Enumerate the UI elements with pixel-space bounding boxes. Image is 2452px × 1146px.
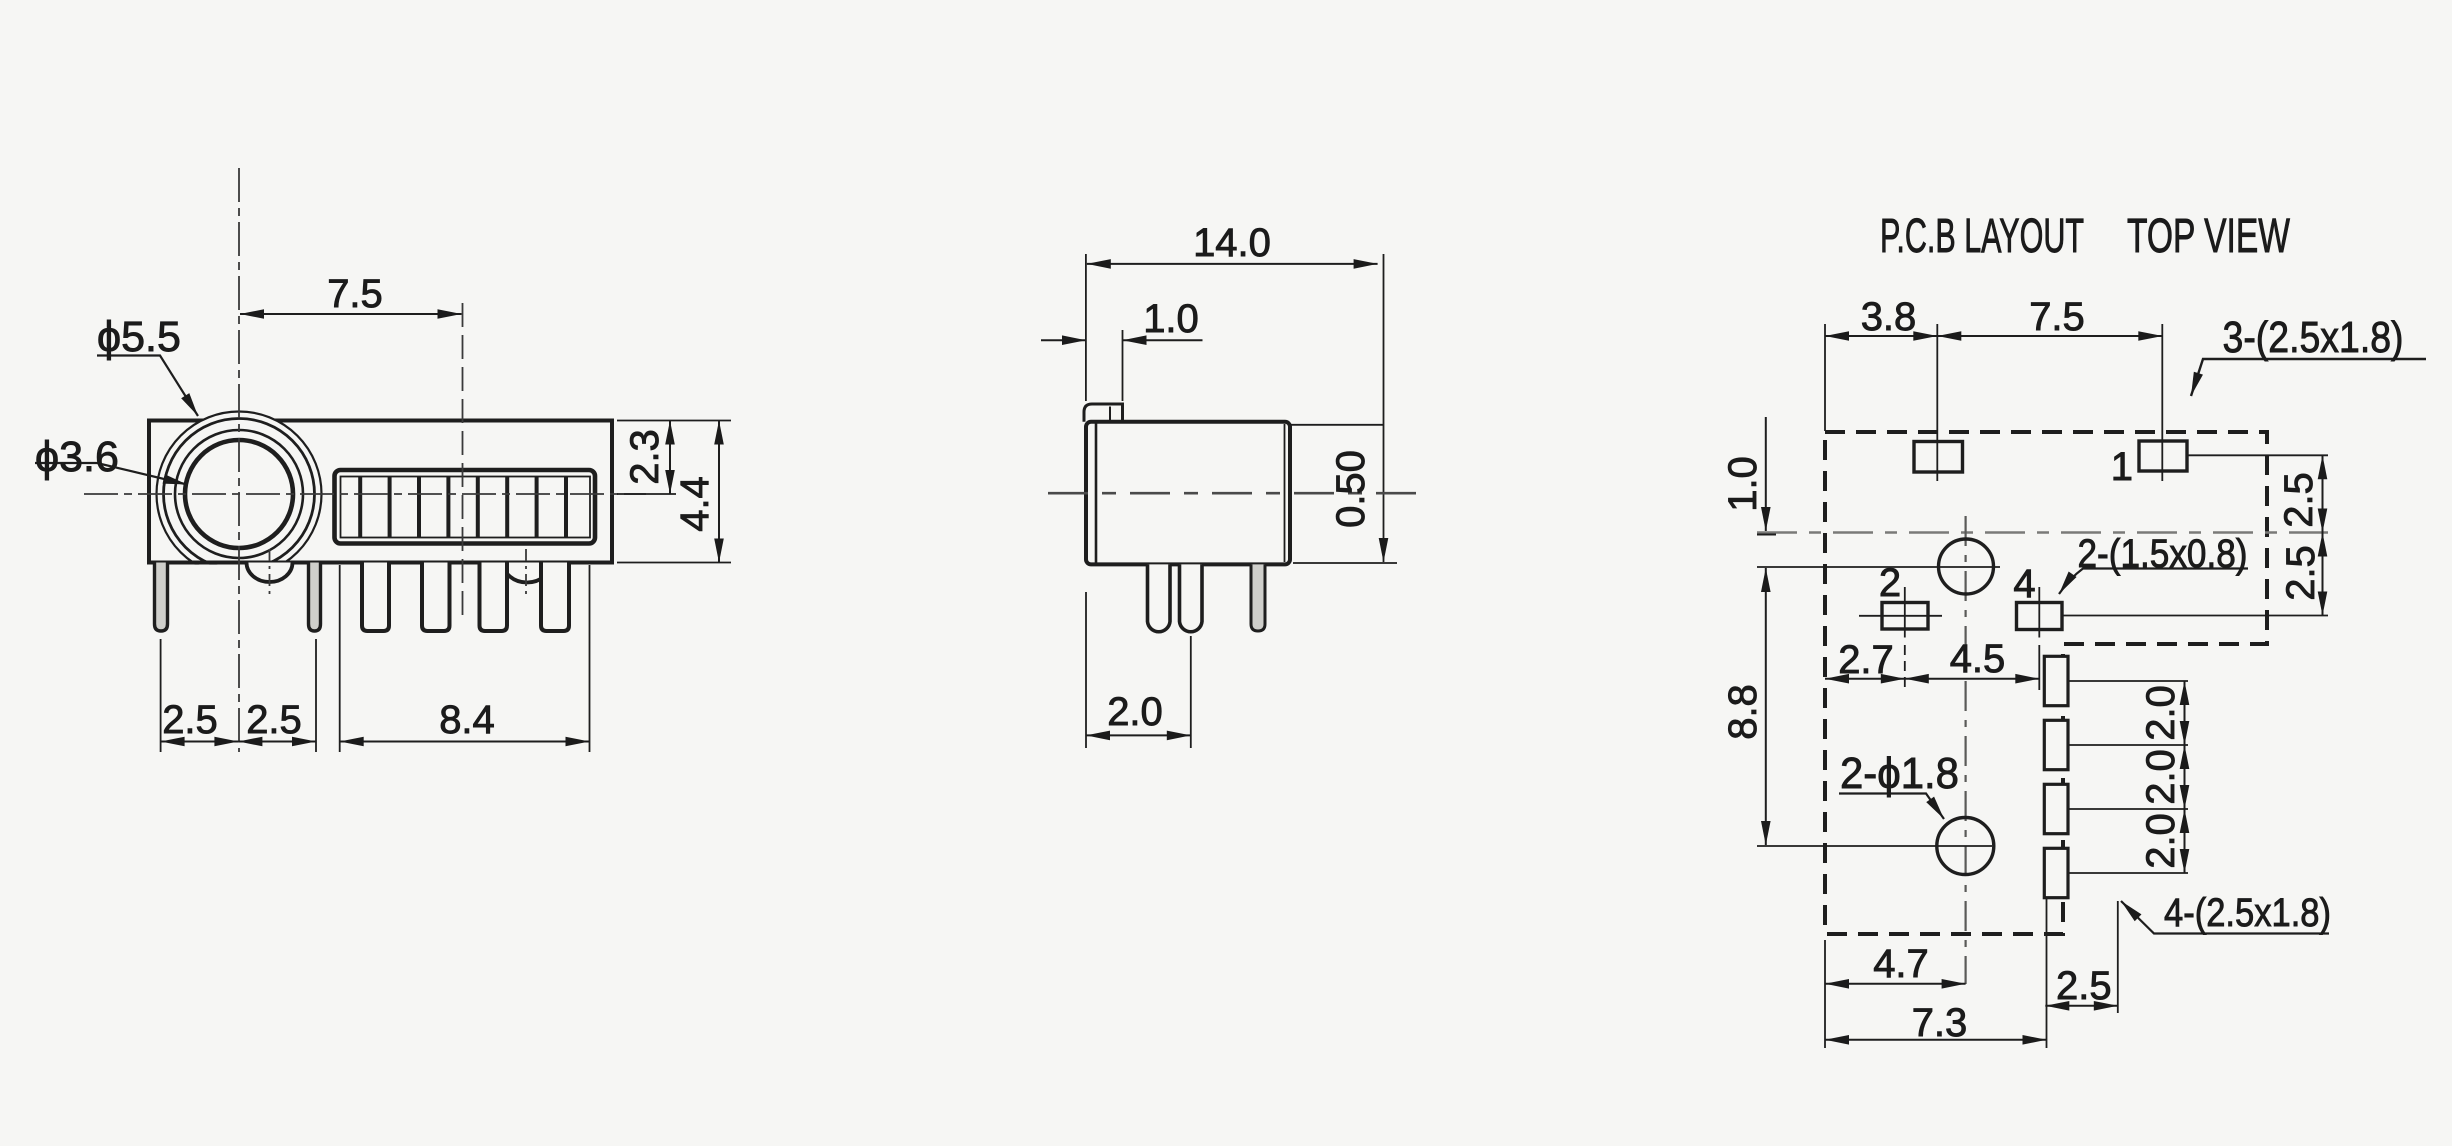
pcb center line vertical — [1964, 516, 1966, 984]
bushing inner ring — [175, 430, 303, 558]
svg-text:2.5: 2.5 — [2279, 545, 2323, 601]
svg-text:2.5: 2.5 — [2277, 472, 2321, 528]
wide pin 1 front — [362, 563, 389, 632]
window outer frame — [335, 470, 596, 544]
leader 2-φ1.8 — [1839, 794, 1944, 820]
dimension 4.4 right side — [617, 562, 731, 564]
pad 1 center line — [2161, 324, 2163, 481]
svg-text:14.0: 14.0 — [1193, 221, 1271, 265]
side body left inner line — [1095, 422, 1098, 565]
pad 3 center line — [1936, 324, 1938, 481]
svg-text:ϕ5.5: ϕ5.5 — [97, 313, 181, 361]
svg-text:2.5: 2.5 — [246, 698, 302, 742]
extension line 2.5 right — [2117, 901, 2119, 1013]
svg-text:ϕ3.6: ϕ3.6 — [35, 433, 119, 481]
horizontal center line front view — [84, 493, 646, 495]
side round pin 1 — [1148, 564, 1171, 631]
dimension 2.0 column line — [2184, 681, 2186, 745]
dimension 1.0 left arrow — [1041, 339, 1086, 341]
pad 1 row line — [2186, 454, 2328, 456]
smd pad S2 — [2044, 720, 2068, 769]
smd row line 3 — [2068, 808, 2188, 810]
boss bump right below body — [503, 563, 551, 583]
smd row line 4 — [2068, 872, 2188, 874]
dimension 2.5 left — [161, 741, 239, 743]
svg-text:4.5: 4.5 — [1950, 637, 2006, 681]
wide pin 4 front — [541, 563, 569, 632]
svg-text:7.5: 7.5 — [2029, 295, 2085, 339]
svg-text:4.4: 4.4 — [673, 476, 717, 532]
extension line 4.7 left — [1824, 940, 1826, 1048]
pcb center line horizontal — [1757, 531, 2328, 534]
svg-text:4: 4 — [2013, 562, 2035, 606]
side body tab — [1084, 404, 1123, 422]
dimension 1.0 pcb — [1765, 417, 1767, 531]
svg-text:0.50: 0.50 — [1329, 450, 1373, 528]
svg-text:2.0: 2.0 — [1107, 690, 1163, 734]
smd row line 1 — [2068, 680, 2188, 682]
side body right inner line — [1284, 424, 1286, 562]
dimension 2.5 right — [238, 741, 316, 743]
bushing second ring — [164, 419, 315, 570]
svg-text:2.0: 2.0 — [2139, 813, 2183, 869]
dimension 7.5 pcb — [1937, 335, 2162, 337]
pad 3 — [1914, 442, 1963, 473]
boss right center dash line — [525, 549, 527, 599]
wide pin 3 front — [480, 563, 508, 632]
body bottom edge re-stroke — [146, 565, 616, 643]
dimension 4.7 — [1825, 983, 1966, 985]
dimension 2.5 lower right — [2322, 533, 2324, 616]
svg-text:2-ϕ1.8: 2-ϕ1.8 — [1840, 749, 1959, 798]
svg-text:TOP VIEW: TOP VIEW — [2127, 210, 2290, 263]
svg-text:2.0: 2.0 — [2139, 685, 2183, 741]
window bar 7 — [535, 477, 539, 538]
pad 1 — [2139, 441, 2187, 471]
dimension 8.8 — [1765, 568, 1767, 845]
pad 2 row line — [1859, 615, 1942, 617]
vertical dashed line window center — [462, 303, 464, 622]
svg-text:2: 2 — [1879, 561, 1901, 605]
extension pad4 down — [2038, 645, 2040, 690]
vertical center line jack axis — [238, 168, 240, 752]
tab inner tick — [1109, 407, 1111, 421]
pad 4 — [2017, 603, 2063, 630]
boss left center dash line — [269, 549, 271, 599]
extension line window right — [589, 565, 591, 752]
dimension 0.50 line with 14.0 extension — [1383, 254, 1385, 562]
phantom region bottom edge — [1293, 562, 1397, 564]
dimension 4.5 — [1905, 678, 2040, 680]
window bar 5 — [476, 477, 480, 538]
svg-text:7.3: 7.3 — [1912, 1001, 1968, 1045]
extension line pin B — [315, 639, 317, 752]
svg-text:8.4: 8.4 — [439, 698, 495, 742]
svg-text:3.8: 3.8 — [1861, 295, 1917, 339]
svg-text:2.5: 2.5 — [2056, 964, 2112, 1008]
svg-text:1.0: 1.0 — [1143, 297, 1199, 341]
label φ5.5 leader — [97, 356, 198, 417]
bushing outer circle φ5.5 — [157, 412, 322, 577]
hole 1 circle — [1939, 539, 1994, 594]
svg-text:2.3: 2.3 — [623, 429, 667, 485]
dimension 2.0 side — [1085, 592, 1087, 748]
svg-text:P.C.B LAYOUT: P.C.B LAYOUT — [1880, 210, 2084, 263]
smd row line 2 — [2068, 744, 2188, 746]
svg-text:3-(2.5x1.8): 3-(2.5x1.8) — [2223, 313, 2404, 362]
svg-text:2-(1.5x0.8): 2-(1.5x0.8) — [2078, 532, 2248, 576]
svg-text:7.5: 7.5 — [327, 272, 383, 316]
thin pin B front — [309, 563, 321, 632]
window bar 1 — [358, 477, 362, 538]
extension line 1.0 — [1122, 330, 1124, 401]
extension pad2 down — [1904, 645, 1906, 690]
smd pad S1 — [2044, 656, 2068, 705]
leader 4-(2.5x1.8) — [2121, 901, 2329, 934]
svg-text:8.8: 8.8 — [1721, 684, 1765, 740]
dimension 2.5 upper right — [2322, 455, 2324, 532]
svg-text:2.5: 2.5 — [162, 698, 218, 742]
svg-text:4.7: 4.7 — [1873, 942, 1929, 986]
footprint dashed outline — [1825, 432, 2267, 934]
window bar 2 — [388, 477, 392, 538]
extension line 7.3 right — [2046, 898, 2048, 1048]
jack hole circle φ3.6 — [185, 440, 293, 548]
label φ3.6 leader — [35, 463, 187, 485]
pad 4 row line — [2062, 615, 2328, 617]
smd pad S3 — [2044, 784, 2068, 833]
svg-text:2.0: 2.0 — [2139, 749, 2183, 805]
extension line outline left top — [1824, 324, 1826, 431]
hole 2 reference line — [1757, 845, 1992, 847]
window inner frame — [341, 477, 591, 538]
dimension 8.4 — [340, 741, 590, 743]
side body outline — [1086, 422, 1290, 565]
body outline front view — [149, 421, 612, 563]
side thin pin — [1251, 564, 1265, 631]
window bar 8 — [564, 477, 568, 538]
extension line window left — [339, 565, 341, 752]
window bar 4 — [446, 477, 450, 538]
smd pad S4 — [2044, 848, 2068, 897]
side center line — [1048, 492, 1424, 495]
hole 2 circle — [1937, 818, 1994, 875]
phantom region top edge — [1290, 424, 1384, 426]
extension line 14.0 left — [1085, 254, 1087, 401]
pad 2 — [1882, 603, 1928, 630]
dimension 14.0 — [1087, 263, 1378, 265]
pad 4 center vertical — [2038, 587, 2040, 638]
svg-text:1: 1 — [2111, 445, 2133, 489]
dimension 3.8 — [1825, 335, 1937, 337]
boss bump left below body — [247, 563, 293, 583]
svg-text:2.7: 2.7 — [1838, 638, 1894, 682]
dimension 2.5 bottom — [2045, 1005, 2118, 1007]
window bar 6 — [505, 477, 509, 538]
leader 2-(1.5x0.8) — [2059, 569, 2248, 595]
wide pin 2 front — [422, 563, 450, 632]
svg-text:1.0: 1.0 — [1721, 456, 1765, 512]
extension line pin A — [160, 639, 162, 752]
window bar 3 — [417, 477, 421, 538]
dimension 1.0 right arrow — [1123, 339, 1203, 341]
dimension 2.3 right side — [617, 420, 731, 422]
svg-text:4-(2.5x1.8): 4-(2.5x1.8) — [2164, 891, 2331, 935]
hole 1 / 8.8 reference line — [1757, 566, 2000, 568]
side round pin 2 — [1180, 564, 1203, 631]
thin pin A front — [155, 563, 168, 632]
dimension 7.5 top front — [240, 313, 462, 315]
leader 3-(2.5x1.8) — [2191, 359, 2426, 396]
pad 2 center vertical — [1904, 587, 1906, 638]
dimension 2.7 — [1825, 678, 1905, 680]
dimension 7.3 — [1825, 1039, 2047, 1041]
